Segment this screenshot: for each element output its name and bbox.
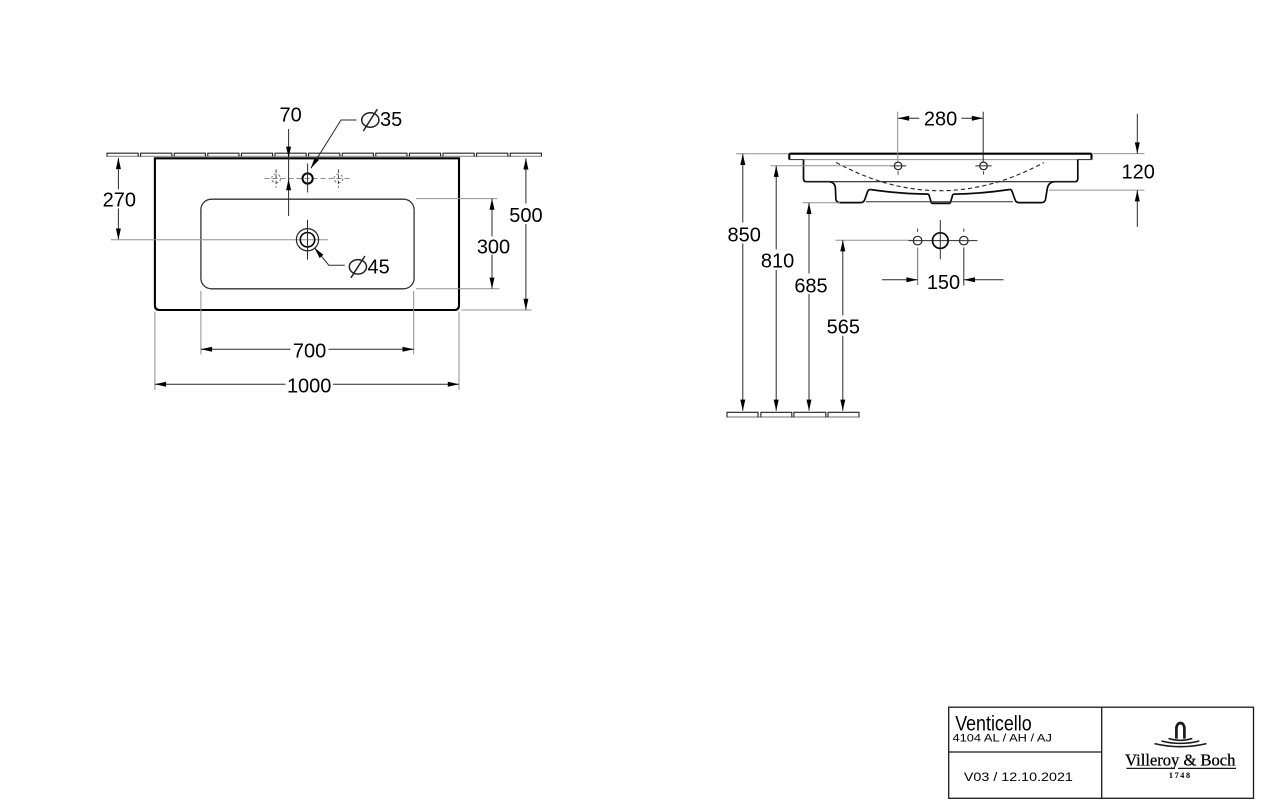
dim 565 extension line <box>836 239 912 241</box>
svg-text:V03 / 12.10.2021: V03 / 12.10.2021 <box>964 770 1073 784</box>
svg-text:4104 AL / AH / AJ: 4104 AL / AH / AJ <box>953 733 1052 745</box>
drain centreline (front) <box>909 240 978 242</box>
svg-text:565: 565 <box>827 316 860 338</box>
drain centreline extension <box>111 239 328 241</box>
svg-text:685: 685 <box>794 275 827 297</box>
dim 685 extension line <box>803 202 841 204</box>
basin outline (top view) 1000x500 <box>155 158 459 310</box>
svg-text:70: 70 <box>279 105 301 127</box>
fixing hole left (front) <box>913 229 922 286</box>
title block frame <box>949 707 1254 798</box>
label Ø45 text <box>349 256 389 279</box>
V&B logo: tap arch <box>1176 723 1184 739</box>
dimension 850 <box>728 154 761 411</box>
title block horizontal divider <box>949 751 1102 753</box>
dim 280 extension lines <box>897 112 899 162</box>
faucet hole right (front) <box>975 162 991 176</box>
dimension 280 <box>898 109 983 131</box>
svg-text:1000: 1000 <box>287 375 332 397</box>
label Ø35 text <box>362 109 403 131</box>
svg-text:300: 300 <box>477 237 510 259</box>
dimension 150 <box>882 272 1004 294</box>
dimension 565 <box>827 240 860 411</box>
faucet side hole right <box>334 170 343 188</box>
dimension 70 <box>279 105 301 217</box>
dimension 700 <box>201 340 414 362</box>
svg-text:500: 500 <box>509 205 542 227</box>
bracket base line <box>866 201 1013 203</box>
underside curve right <box>953 190 1010 195</box>
underside profile left bracket <box>830 182 871 203</box>
dim 700 extension lines <box>200 291 202 355</box>
svg-text:120: 120 <box>1122 162 1155 184</box>
faucet hole Ø35 <box>303 164 313 193</box>
svg-text:270: 270 <box>103 190 136 212</box>
body right face <box>1054 160 1078 182</box>
underside curve left <box>870 190 928 195</box>
ledge line <box>806 181 1075 183</box>
floor hatch band <box>727 412 859 417</box>
svg-text:280: 280 <box>924 109 957 131</box>
drain hole centre (front) <box>933 220 949 259</box>
wall hatch band <box>107 153 542 156</box>
label Ø45 leader <box>312 246 344 265</box>
faucet hole left (front) <box>890 162 906 176</box>
svg-text:150: 150 <box>927 272 960 294</box>
dim 850 extension line <box>736 153 789 155</box>
slab top line <box>789 154 1091 160</box>
dim 120 extension lines <box>1093 153 1145 155</box>
dim 810 extension line <box>771 165 894 167</box>
slab underside <box>804 159 1078 161</box>
svg-text:45: 45 <box>368 257 390 279</box>
faucet side hole left <box>272 170 281 188</box>
title block vertical divider <box>1101 707 1103 798</box>
dimension 270 <box>103 158 136 240</box>
faucet holes centerline <box>265 178 351 180</box>
dim 500 extension line <box>462 309 532 311</box>
dimension 500 <box>509 158 542 310</box>
V&B logo: underline <box>1127 767 1176 769</box>
dimension 300 <box>477 199 510 289</box>
hidden bowl contour (dashed) <box>836 163 1044 191</box>
dimension 1000 <box>155 375 459 397</box>
svg-text:1748: 1748 <box>1169 771 1192 780</box>
body left face <box>804 160 830 182</box>
inner bowl 700x300 <box>201 199 414 289</box>
svg-text:810: 810 <box>761 251 794 273</box>
svg-text:700: 700 <box>293 340 326 362</box>
underside profile right bracket <box>1010 182 1054 203</box>
svg-text:Villeroy & Boch: Villeroy & Boch <box>1125 751 1236 770</box>
V&B logo: ripples <box>1169 739 1193 741</box>
dimension 120 <box>1122 114 1155 227</box>
drain boss tab <box>929 194 953 203</box>
label Ø35 leader <box>309 120 357 170</box>
dim 1000 extension lines <box>154 312 156 391</box>
drain hole Ø45 <box>296 220 318 260</box>
dim 300 extension lines <box>416 198 498 200</box>
svg-text:35: 35 <box>380 109 402 131</box>
svg-text:850: 850 <box>728 225 761 247</box>
dimension 685 <box>794 203 827 411</box>
dimension 810 <box>761 166 794 411</box>
fixing hole right (front) <box>960 229 969 286</box>
